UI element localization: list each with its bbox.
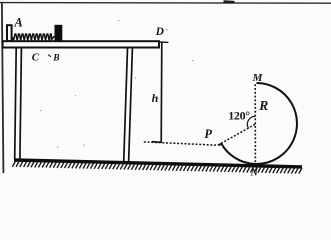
svg-text:120°: 120° xyxy=(228,108,250,122)
ground line xyxy=(14,160,302,167)
svg-text:R: R xyxy=(258,98,268,113)
dashed line P to R xyxy=(218,124,256,145)
wall post A xyxy=(7,25,12,41)
svg-text:C: C xyxy=(32,51,40,63)
h dimension bottom tick xyxy=(152,141,161,144)
svg-text:B: B xyxy=(52,54,59,64)
svg-text:A: A xyxy=(13,15,22,29)
svg-text:h: h xyxy=(152,91,159,105)
table right leg xyxy=(124,48,133,162)
dashed diameter line M to N xyxy=(254,84,256,163)
left border line xyxy=(2,3,4,173)
h dimension top tick xyxy=(159,41,169,43)
angle arc at R xyxy=(247,116,255,128)
scan noise specks xyxy=(40,20,193,148)
block B xyxy=(55,25,63,41)
spring xyxy=(13,34,55,40)
svg-text:D: D xyxy=(155,26,165,38)
tick before B xyxy=(48,55,51,57)
h dimension vertical line xyxy=(160,43,163,144)
top border line xyxy=(0,2,331,5)
svg-text:N: N xyxy=(250,168,259,179)
table left leg xyxy=(15,48,22,159)
circle arc track xyxy=(219,83,297,164)
table top xyxy=(3,41,159,47)
top border thick blob xyxy=(224,0,235,3)
svg-text:P: P xyxy=(204,127,212,141)
svg-text:M: M xyxy=(252,72,264,84)
dashed P level line xyxy=(144,142,218,145)
ground hatching xyxy=(12,161,302,174)
